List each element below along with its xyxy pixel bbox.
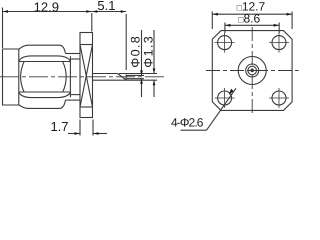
svg-text:Φ0.8: Φ0.8 — [128, 35, 142, 68]
neck cylinder top — [66, 53, 81, 55]
dimension 12.7 extension line left — [211, 12, 213, 30]
dimension phi1.3 arrow upper — [153, 69, 156, 74]
dimension 5.1 arrow left — [92, 10, 97, 13]
dimension 8.6 arrow right — [274, 24, 279, 27]
pin tip extension line lower — [126, 78, 144, 80]
hex nut front-face chamfer arc right — [63, 62, 66, 92]
dimension phi1.3 arrow lower — [153, 80, 156, 85]
flange front view horizontal centerline — [206, 70, 299, 72]
dimension 1.7 extension line right — [92, 120, 94, 136]
pin tip extension line upper — [126, 74, 144, 76]
mounting hole bottom-left — [218, 91, 232, 105]
dimension 5.1 line — [92, 11, 126, 13]
back body right edge — [18, 49, 20, 105]
mounting holes leader shoulder — [181, 129, 207, 131]
flange cross diagonal 2 — [80, 45, 93, 108]
dimension phi0.8 arrow upper — [140, 70, 143, 75]
dimension 12.7 arrow left — [213, 13, 218, 16]
centerline of connector axis — [0, 76, 167, 78]
dimension phi1.3 line lower — [153, 80, 155, 97]
dimension 1.7 line right — [93, 133, 107, 135]
flange upper edge line — [80, 44, 93, 46]
dimension 12.9 arrow left — [3, 10, 8, 13]
flange lower edge line — [80, 106, 93, 108]
dimension 5.1 extension line right — [125, 14, 127, 70]
center interface outer circle — [238, 57, 266, 85]
flange front view vertical centerline — [251, 27, 253, 115]
svg-text:Φ1.3: Φ1.3 — [141, 35, 155, 68]
svg-text:4-Φ2.6: 4-Φ2.6 — [171, 115, 204, 129]
dimension phi0.8 line upper — [141, 30, 143, 75]
dimension phi1.3 line upper — [153, 30, 155, 73]
dimension 1.7 arrow right — [94, 132, 99, 135]
mounting hole bottom-right crosshair — [269, 88, 289, 108]
hex nut lower chamfer curve — [19, 92, 71, 98]
pin tip chamfer — [118, 74, 127, 81]
neck inner step bottom — [70, 94, 80, 96]
dimension 5.1 arrow right — [121, 10, 126, 13]
dimension 12.9 arrow right — [86, 10, 91, 13]
hex nut lower face edge line — [19, 91, 71, 93]
pin diameter extension line lower — [126, 79, 157, 81]
pin tip end face — [125, 75, 127, 81]
dimension 12.7 line — [212, 13, 292, 15]
dimension 12.7 extension line right — [291, 12, 293, 30]
dimension phi0.8 arrow lower — [140, 79, 143, 84]
mounting hole top-left crosshair — [215, 33, 235, 53]
pin top edge — [93, 73, 118, 75]
mounting hole top-left — [218, 36, 232, 50]
center dielectric circle — [246, 64, 259, 77]
dimension 1.7 extension line left — [79, 120, 81, 136]
flange cross diagonal 1 — [80, 45, 93, 108]
dimension 8.6 extension line left — [224, 23, 226, 34]
dimension 1.7 line left — [68, 133, 80, 135]
flange side view outline — [80, 33, 93, 118]
dimension 12.7 arrow right — [287, 13, 292, 16]
svg-text:12.9: 12.9 — [34, 0, 59, 15]
dimension phi0.8 line lower — [141, 79, 143, 97]
dimension 1.7 arrow left — [75, 132, 80, 135]
dimension 8.6 line — [225, 24, 279, 26]
center pin dot — [250, 69, 254, 73]
center pin circle — [248, 66, 257, 75]
mounting hole top-right crosshair — [269, 33, 289, 53]
hex nut front-face chamfer arc left — [21, 62, 24, 92]
hex nut silhouette top — [19, 45, 66, 53]
svg-text:5.1: 5.1 — [97, 0, 115, 13]
mounting hole top-right — [272, 36, 286, 50]
svg-text:1.7: 1.7 — [50, 119, 68, 134]
dimension 12.9 extension line left — [2, 8, 4, 49]
dimension 8.6 arrow left — [225, 24, 230, 27]
dimension 12.9/5.1 shared extension line — [91, 13, 93, 32]
dimension 8.6 extension line right — [278, 23, 280, 34]
hex nut right end face — [69, 56, 71, 97]
flange front view outline with chamfered corners — [212, 31, 292, 111]
pin bottom edge — [93, 79, 127, 81]
neck cylinder bottom — [66, 99, 81, 101]
connector back body rectangle — [3, 49, 19, 105]
mounting holes leader arrow — [229, 89, 234, 95]
hex nut upper face edge line — [19, 61, 71, 63]
neck inner step top — [70, 58, 80, 60]
hex nut upper chamfer curve — [19, 56, 71, 62]
hex nut silhouette bottom — [19, 100, 66, 108]
mounting hole bottom-left crosshair — [215, 88, 235, 108]
mounting holes leader line — [207, 88, 237, 130]
dimension 12.9 line — [3, 11, 92, 13]
pin diameter extension line upper — [119, 73, 157, 75]
svg-text:□8.6: □8.6 — [238, 11, 260, 25]
mounting hole bottom-right — [272, 91, 286, 105]
